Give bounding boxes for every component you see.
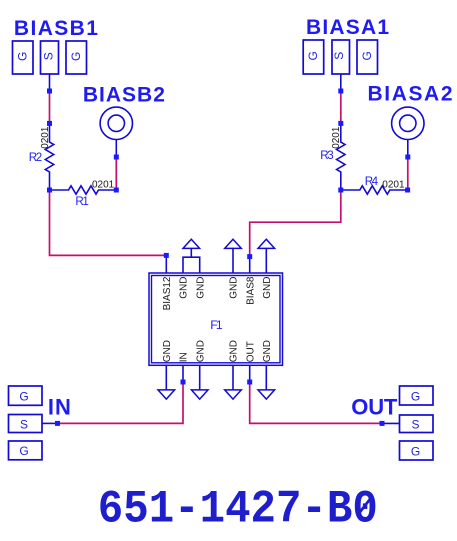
wire bracket GND pins 2-3 with stem [183,248,200,273]
svg-text:G: G [19,389,28,403]
connector P_BIASB1 pad G left [13,41,34,74]
svg-text:GND: GND [229,340,240,362]
resistor R4 [341,186,408,194]
svg-text:BIAS8: BIAS8 [245,276,256,305]
node junction at IN S pad [55,421,60,426]
wire net BIASB to chip BIAS12 [50,190,167,255]
svg-text:OUT: OUT [351,394,398,419]
wire pin stub BIAS12 [165,255,167,273]
wire net BIASA2 vertical [407,157,409,190]
svg-text:G: G [16,52,30,61]
ground arrow bottom3 [191,390,208,399]
wire net BIASA1 vertical [340,91,342,123]
svg-text:0201: 0201 [382,180,405,191]
svg-text:S: S [332,52,346,60]
wire stem GND pin 6 [265,248,267,273]
svg-text:GND: GND [195,277,206,299]
testpoint BIASB2 inner circle [108,115,124,131]
svg-text:S: S [20,417,28,431]
wire stub GND bottom4 [232,365,234,390]
svg-text:S: S [41,52,55,60]
node junction below BIASB1 S [47,89,52,94]
svg-text:IN: IN [179,352,190,362]
connector P_OUT pad G bottom [400,441,434,460]
ground arrow bottom6 [258,390,275,399]
wire BIASA2 testpoint stem [407,140,409,158]
testpoint BIASB2 outer circle [100,107,132,139]
svg-text:BIASA1: BIASA1 [306,16,389,39]
wire net BIASB2 vertical [115,157,117,190]
node junction R3/R4 corner [338,188,343,193]
svg-text:R1: R1 [75,195,88,208]
svg-text:S: S [411,418,419,432]
node junction at BIAS12 pin [164,253,169,258]
svg-text:0201: 0201 [331,126,342,149]
wire stub GND bottom6 [265,365,267,390]
power arrow above GND pin 4 [225,239,242,248]
svg-text:0201: 0201 [40,126,51,149]
wire pin stub BIAS8 [249,257,251,273]
connector P_OUT pad G top [400,386,434,405]
svg-text:G: G [69,52,83,61]
wire BIASB1 S pad to junction [49,74,51,91]
connector P_BIASA1 pad S [332,40,350,74]
svg-text:R3: R3 [320,149,333,162]
connector P_IN pad G top [9,386,43,405]
connector P_OUT pad S [400,415,434,433]
resistor R2 [45,123,53,190]
node junction below BIASA1 S [338,89,343,94]
svg-text:BIAS12: BIAS12 [162,276,173,310]
svg-text:BIASB2: BIASB2 [83,83,165,106]
svg-text:G: G [411,444,420,458]
power arrow above GND pin 6 [258,239,275,248]
connector P_BIASB1 pad S [41,41,59,74]
svg-text:R4: R4 [365,175,379,188]
resistor R3 [337,123,345,190]
svg-text:G: G [19,444,28,458]
node junction at BIAS8 pin [247,254,252,259]
svg-text:G: G [306,51,320,60]
wire stub OUT pin [249,365,251,382]
svg-text:0201: 0201 [92,180,115,191]
node junction R2/R1 corner [47,188,52,193]
testpoint BIASA2 outer circle [392,107,424,139]
svg-text:GND: GND [262,340,273,362]
node junction above R2 [47,121,52,126]
node junction at IN pin [181,380,186,385]
node junction at OUT S pad [380,421,385,426]
ground arrow bottom4 [225,390,242,399]
connector P_IN pad G bottom [9,441,43,460]
chip F1 inner body [152,276,281,363]
svg-text:G: G [360,51,374,60]
svg-text:G: G [411,389,420,403]
svg-text:OUT: OUT [245,341,256,362]
svg-text:BIASB1: BIASB1 [14,17,98,40]
svg-text:GND: GND [195,340,206,362]
testpoint BIASA2 inner circle [400,115,416,131]
connector P_IN pad S [9,415,43,433]
connector P_BIASA1 pad G left [303,40,324,74]
resistor R1 [50,186,117,194]
node junction above R3 [338,121,343,126]
node junction R1 right [114,188,119,193]
svg-text:R2: R2 [29,151,42,164]
svg-text:IN: IN [48,394,71,419]
wire stub IN pin [182,365,184,382]
wire stub GND bottom1 [165,365,167,390]
svg-text:F1: F1 [210,318,223,332]
svg-text:GND: GND [179,277,190,299]
wire net OUT [250,382,382,423]
wire BIASB2 testpoint stem [115,140,117,158]
power arrow above GND pins 2-3 [183,239,200,248]
node junction below BIASB2 [114,155,119,160]
wire net BIASA to chip BIAS8 [250,190,341,257]
wire net BIASB1 vertical [49,91,51,123]
wire stub to OUT S pad [382,422,400,424]
wire net IN [58,382,184,423]
svg-text:GND: GND [262,277,273,299]
svg-text:651-1427-B0: 651-1427-B0 [98,484,378,536]
wire stub GND bottom3 [199,365,201,390]
wire stub to IN S pad [42,422,58,424]
connector P_BIASB1 pad G right [66,41,87,74]
svg-text:GND: GND [162,340,173,362]
connector P_BIASA1 pad G right [357,40,378,74]
ground arrow bottom1 [158,390,175,399]
node junction R4 right [405,188,410,193]
chip F1 outer body [149,273,283,365]
slash of final zero [358,497,372,515]
wire stem GND pin 4 [232,248,234,273]
wire BIASA1 S pad to junction [340,74,342,91]
svg-text:GND: GND [229,277,240,299]
node junction below BIASA2 [405,155,410,160]
node junction at OUT pin [247,380,252,385]
